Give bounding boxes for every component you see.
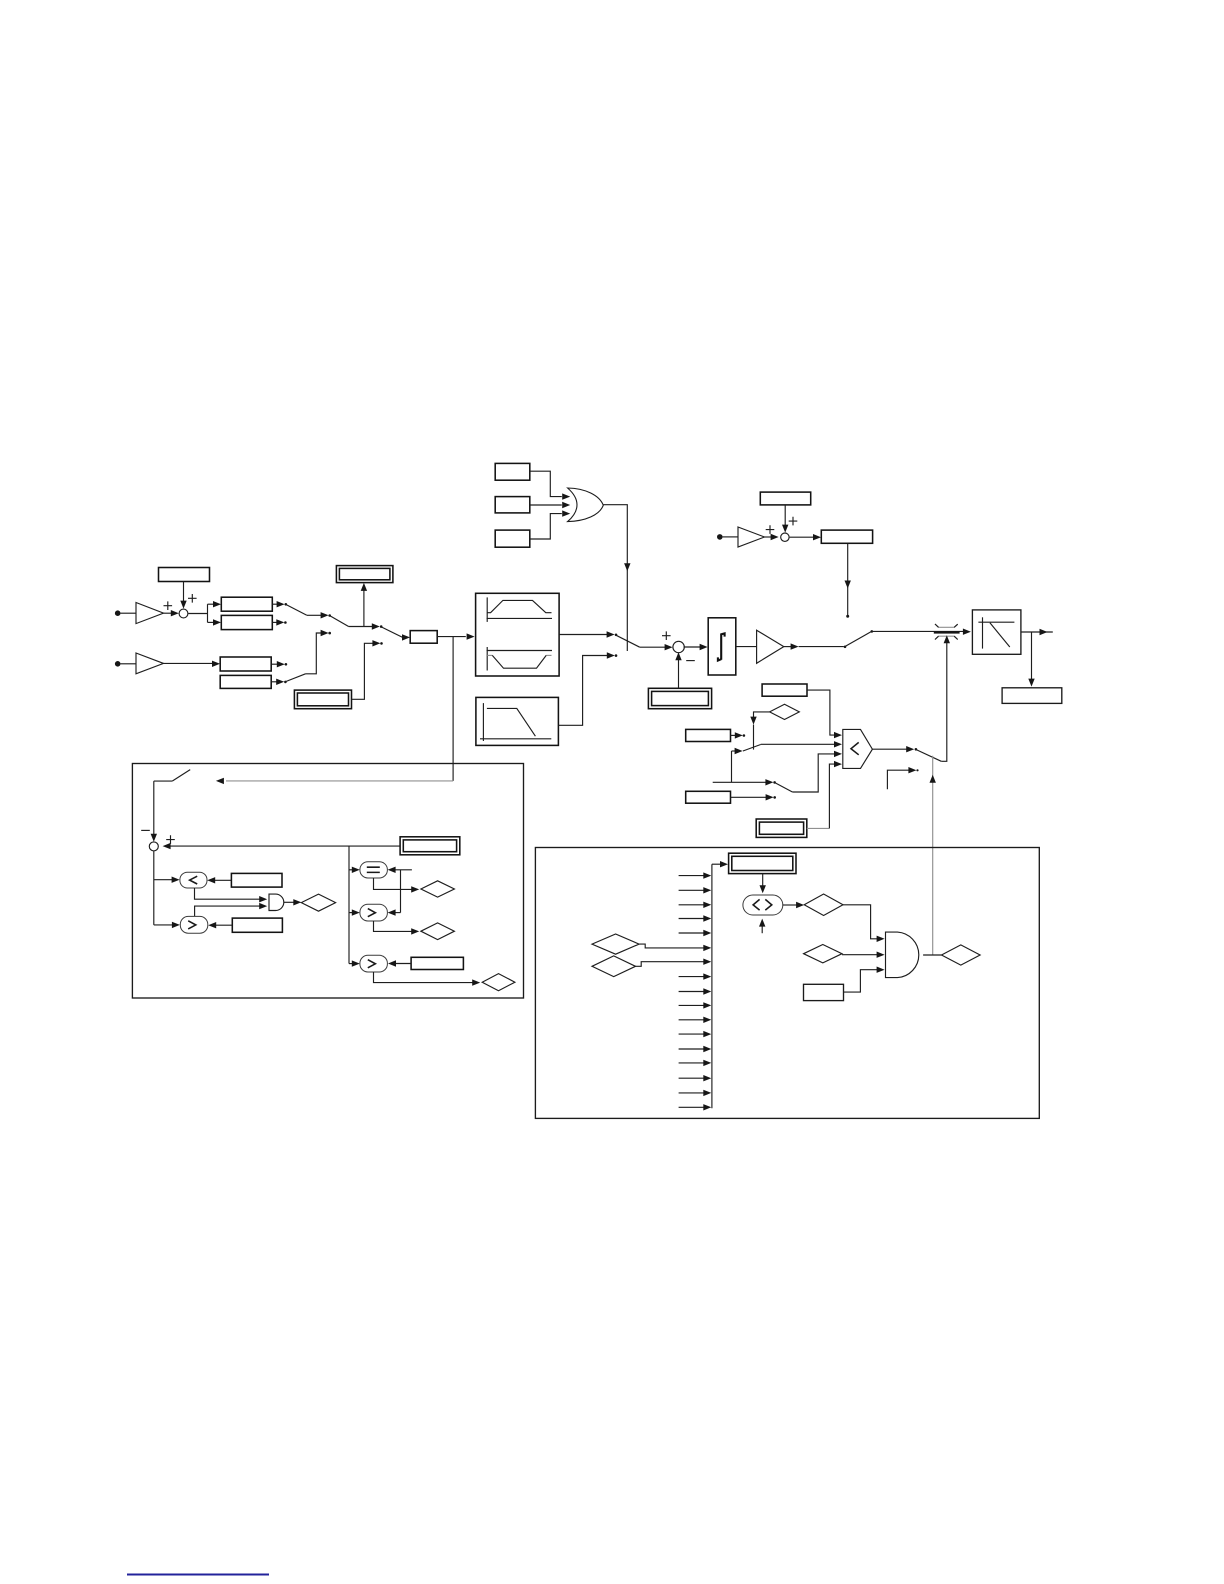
bus input wire 13: [679, 1046, 712, 1052]
wire: [402, 634, 410, 640]
sum junction S3: [781, 533, 789, 541]
wire: [216, 778, 453, 784]
bus input wire 9: [679, 988, 712, 994]
multiport switch P1: [843, 729, 873, 768]
switch SW2 blade: [330, 616, 349, 627]
tag diamond E10: [942, 945, 981, 965]
wire: [872, 746, 917, 752]
plus sign: [789, 517, 798, 526]
wire: [374, 921, 420, 935]
wire: [1021, 629, 1053, 635]
wire: [731, 794, 777, 800]
lag box B1: [821, 530, 872, 543]
wire: [843, 905, 885, 942]
display box D1: [336, 566, 393, 583]
gain K3: [738, 527, 765, 547]
display box D2: [648, 688, 711, 708]
wire: [530, 502, 570, 508]
plus sign: [164, 601, 173, 610]
compare block Q2: [180, 916, 208, 933]
wire: [207, 877, 231, 883]
bus input wire 3: [679, 902, 712, 908]
flag box T3: [495, 530, 530, 547]
wire: [792, 751, 842, 792]
bus input wire 4: [679, 915, 712, 921]
wire: [736, 646, 757, 648]
constant box C1: [159, 568, 210, 582]
wire: [842, 952, 885, 958]
bus input wire 5: [679, 930, 712, 936]
switch SW9 blade: [154, 770, 190, 782]
graph lower trapezoid: [487, 647, 552, 671]
wire: [361, 583, 367, 627]
wire: [352, 640, 383, 699]
switch SW3 blade: [382, 627, 403, 637]
wire: [164, 610, 179, 616]
derivative box F2: [972, 610, 1021, 654]
bus input wire 12: [679, 1031, 712, 1037]
wire: [783, 902, 804, 908]
sum junction S1: [179, 609, 188, 618]
bus input wire 14: [679, 1060, 712, 1066]
bus input wire 7: [636, 959, 712, 967]
tag diamond E6: [592, 934, 639, 954]
plus sign: [766, 525, 775, 534]
tag diamond E8: [804, 894, 843, 916]
unit box U1: [410, 631, 437, 644]
compare block Q6: [743, 895, 783, 915]
switch SW4 blade: [616, 635, 640, 647]
switch SW5 blade: [845, 630, 873, 646]
bus trunk wire: [711, 864, 713, 1108]
wire: [195, 888, 268, 902]
switch SW2b blade: [286, 674, 306, 682]
wire: [603, 505, 630, 651]
flag box T1: [495, 463, 530, 480]
tag diamond E9: [804, 945, 842, 963]
wire: [208, 922, 232, 928]
wire: [559, 631, 617, 637]
tag diamond E2: [301, 894, 335, 911]
enable box B3: [804, 984, 844, 1000]
wire: [712, 861, 728, 867]
wire: [731, 732, 746, 738]
wire: [713, 779, 776, 785]
tag diamond E4: [421, 923, 455, 940]
wire: [306, 630, 332, 674]
memory box B2: [1002, 688, 1062, 704]
compare block Q3: [360, 862, 388, 878]
wire: [530, 510, 570, 539]
wire: [272, 619, 286, 625]
wire: [388, 960, 411, 966]
switch SW7 blade: [775, 783, 793, 792]
wire: [558, 652, 617, 725]
wire: [154, 851, 180, 928]
wire: [374, 972, 481, 986]
limit box L3: [411, 957, 463, 969]
wire: [761, 741, 842, 747]
bus input wire 10: [679, 1002, 712, 1008]
switch SW1 blade: [286, 605, 307, 616]
wire: [180, 582, 186, 609]
wire: [349, 846, 360, 967]
wire: [452, 637, 454, 781]
bus input wire 11: [679, 1017, 712, 1023]
wire: [188, 601, 221, 626]
graph upper trapezoid: [487, 597, 552, 622]
wire: [374, 878, 420, 893]
rate box A2: [221, 615, 272, 629]
footer rule: [127, 1574, 269, 1576]
wire: [121, 612, 137, 614]
limit box L1: [231, 873, 282, 887]
bus input wire 8: [679, 973, 712, 979]
flag box T2: [495, 497, 530, 513]
plus sign: [662, 631, 671, 640]
wire: [530, 471, 570, 500]
subsystem frame X2: [535, 848, 1039, 1119]
bus input wire 16: [679, 1090, 712, 1096]
constant box C2: [760, 492, 810, 505]
mode box M1: [762, 684, 807, 696]
minus sign: [686, 660, 695, 662]
wire: [784, 643, 847, 649]
wire: [163, 843, 401, 849]
wire: [760, 874, 766, 894]
display box D6: [729, 853, 796, 873]
and gate G3: [886, 932, 919, 978]
gain K1: [136, 603, 164, 624]
wire: [807, 690, 842, 738]
wire: [887, 767, 918, 789]
plus sign: [166, 835, 175, 844]
tag diamond E5: [482, 974, 515, 991]
compare block Q4: [360, 904, 388, 921]
wire: [307, 612, 331, 618]
wire: [723, 536, 738, 538]
tag diamond E3: [421, 881, 455, 897]
input port In1: [115, 610, 121, 616]
wire: [732, 748, 743, 783]
bus input wire 1: [679, 872, 712, 878]
input port In2: [115, 661, 121, 667]
tag diamond E1: [770, 704, 800, 719]
bus input wire 6: [639, 944, 711, 951]
wire: [164, 661, 221, 667]
tag diamond E7: [592, 956, 636, 977]
compare block Q5: [360, 955, 388, 972]
wire: [271, 661, 287, 667]
integrator I1: [708, 618, 736, 675]
rate box A1: [221, 597, 272, 611]
wire: [349, 623, 383, 629]
mode box M3: [686, 791, 731, 803]
wire: [941, 635, 950, 761]
gain K4: [757, 630, 784, 663]
wire: [675, 652, 681, 688]
wire: [121, 663, 137, 665]
saturation marker: [934, 624, 960, 640]
wire: [195, 903, 268, 917]
display box D3: [756, 819, 807, 837]
graph falling curve: [480, 703, 551, 741]
sum junction S5: [149, 842, 158, 851]
wire: [807, 761, 842, 829]
limit box L2: [232, 918, 282, 932]
and gate G2: [269, 894, 284, 910]
wire: [151, 781, 157, 842]
wire: [271, 679, 287, 685]
wire: [284, 899, 302, 905]
wire: [872, 629, 971, 635]
wire: [923, 954, 941, 956]
graph derivative curve: [978, 617, 1014, 648]
wire: [1028, 632, 1034, 687]
wire: [759, 919, 765, 934]
wire: [272, 601, 287, 607]
display box D4: [400, 837, 460, 855]
rate box A3: [220, 657, 271, 671]
minus sign: [141, 829, 150, 831]
rate box A4: [220, 675, 271, 688]
wire: [684, 644, 708, 650]
wire: [750, 712, 769, 750]
sum junction S4: [673, 641, 684, 652]
wire: [388, 867, 412, 916]
low-pass box F1: [476, 697, 559, 745]
or gate G1: [568, 488, 604, 522]
bus input wire 17: [679, 1104, 712, 1110]
bus input wire 2: [679, 887, 712, 893]
compare block Q1: [180, 872, 207, 888]
gain K2: [136, 653, 164, 674]
wire: [640, 644, 673, 650]
rate-limit box R1: [476, 593, 559, 676]
wire: [844, 967, 885, 993]
bus input wire 15: [679, 1075, 712, 1081]
display box D5: [294, 690, 351, 709]
switch SW6 blade: [743, 745, 761, 752]
wire: [782, 505, 788, 533]
plus sign: [188, 594, 197, 603]
wire: [437, 633, 474, 639]
wire: [765, 534, 779, 540]
mode box M2: [686, 729, 731, 741]
wire: [845, 543, 851, 617]
switch SW8 blade: [916, 750, 941, 762]
feedback wire: [930, 756, 936, 955]
wire: [790, 534, 821, 540]
input port In3: [717, 534, 723, 540]
subsystem frame X1: [132, 764, 523, 999]
